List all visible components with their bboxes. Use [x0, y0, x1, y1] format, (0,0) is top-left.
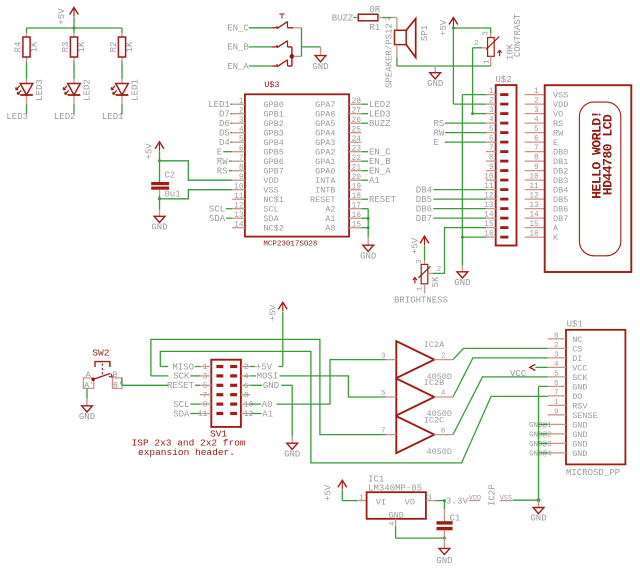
svg-text:GND: GND — [427, 79, 443, 89]
svg-text:GPB3: GPB3 — [263, 129, 283, 139]
header U$2 — [496, 75, 517, 246]
wire IC1 GND to C1 bottom — [396, 527, 445, 539]
svg-text:LED1: LED1 — [208, 100, 230, 110]
power pin VDD IC2P — [469, 495, 481, 503]
svg-text:C2: C2 — [164, 171, 175, 181]
wire MOSI to IC2B input — [250, 376, 386, 397]
svg-text:5: 5 — [554, 370, 559, 378]
svg-text:9: 9 — [489, 164, 494, 172]
svg-text:SDA: SDA — [173, 409, 190, 419]
svg-text:A': A' — [84, 380, 94, 390]
svg-text:2: 2 — [239, 107, 244, 115]
svg-text:GND: GND — [454, 278, 470, 288]
svg-text:GPA1: GPA1 — [315, 157, 335, 167]
svg-text:3: 3 — [554, 351, 559, 359]
pin stubs U$3 left — [232, 104, 245, 228]
svg-text:EN_C: EN_C — [369, 148, 391, 158]
svg-text:IC2B: IC2B — [424, 378, 444, 388]
junction VSS ground — [158, 197, 161, 200]
resistor R1 0R — [358, 5, 380, 33]
wire contrast pin 2 to U$2 pin 3 — [473, 48, 487, 114]
svg-text:RW: RW — [553, 129, 564, 139]
svg-text:2: 2 — [437, 266, 442, 274]
svg-text:16: 16 — [352, 212, 362, 220]
svg-text:22: 22 — [352, 155, 362, 163]
wire SCK loop to IC2C input — [151, 339, 386, 434]
svg-text:VCC: VCC — [572, 363, 587, 373]
svg-text:INTA: INTA — [315, 176, 336, 186]
wire A1 stub — [250, 413, 261, 415]
header SV1 — [210, 360, 241, 440]
pin stub IC1 GND — [395, 519, 397, 527]
svg-text:LED2: LED2 — [369, 100, 391, 110]
wire R1 to speaker pin 2 — [378, 18, 397, 31]
svg-text:K: K — [553, 233, 559, 243]
svg-text:8: 8 — [534, 155, 539, 163]
svg-text:LED2: LED2 — [82, 79, 92, 101]
ground SW2 — [79, 399, 95, 422]
wire +5V to C2 — [159, 161, 161, 182]
pin numbers SV1 — [198, 364, 254, 419]
wire EN_A to junction — [288, 56, 292, 66]
svg-text:MICROSD_PP: MICROSD_PP — [566, 468, 620, 478]
svg-text:HD44780 LCD: HD44780 LCD — [601, 114, 616, 195]
pin pads SV1 — [216, 365, 237, 415]
svg-text:+5V: +5V — [324, 484, 334, 501]
svg-text:CS: CS — [572, 344, 582, 354]
svg-text:+5V: +5V — [411, 237, 421, 254]
svg-text:E: E — [553, 138, 558, 148]
svg-text:8: 8 — [244, 392, 249, 400]
svg-text:RSV: RSV — [572, 401, 588, 411]
pin stubs IC2B — [381, 390, 453, 398]
svg-text:DB7: DB7 — [553, 214, 568, 224]
svg-text:12: 12 — [234, 202, 244, 210]
wire SDA stub — [190, 413, 200, 415]
svg-text:IC2A: IC2A — [424, 340, 445, 350]
junction C1 ground — [443, 537, 446, 540]
wire EN_C to common — [288, 27, 302, 29]
voltage regulator IC1 LM340MP-05 — [367, 475, 426, 521]
svg-text:EN_A: EN_A — [227, 62, 249, 72]
svg-text:SPEAKER/PS12: SPEAKER/PS12 — [384, 23, 394, 88]
junction LED rail — [73, 27, 76, 30]
svg-text:E: E — [434, 138, 439, 148]
svg-text:IC2P: IC2P — [487, 484, 497, 506]
svg-text:GPA0: GPA0 — [315, 167, 335, 177]
power +5V symbol (U$3 supply) — [145, 142, 164, 160]
svg-text:11: 11 — [529, 183, 539, 191]
svg-text:16: 16 — [529, 231, 539, 239]
pin numbers U$3 left — [234, 98, 244, 230]
svg-text:DO: DO — [572, 392, 582, 402]
svg-text:13: 13 — [529, 202, 539, 210]
wire +5V SV1 — [250, 312, 282, 367]
junction contrast VO — [471, 112, 474, 115]
svg-text:1: 1 — [203, 364, 208, 372]
svg-text:28: 28 — [352, 98, 362, 106]
svg-text:DB2: DB2 — [553, 167, 568, 177]
junction C1 top — [443, 499, 446, 502]
svg-text:11: 11 — [198, 411, 208, 419]
svg-text:INTB: INTB — [315, 186, 335, 196]
svg-text:3: 3 — [416, 259, 424, 264]
svg-text:NC: NC — [572, 335, 582, 345]
svg-text:SDA: SDA — [263, 214, 279, 224]
svg-text:EN_A: EN_A — [369, 167, 391, 177]
wire A0 to IC2A input — [250, 360, 386, 405]
svg-text:D4: D4 — [219, 138, 230, 148]
pin stub brightness pin 1 — [424, 284, 426, 294]
svg-text:8: 8 — [554, 332, 559, 340]
svg-text:D5: D5 — [219, 129, 230, 139]
svg-text:6: 6 — [441, 427, 446, 435]
svg-text:CONTRAST: CONTRAST — [513, 13, 523, 57]
svg-text:VO: VO — [405, 498, 415, 508]
svg-text:6: 6 — [554, 380, 559, 388]
svg-text:10: 10 — [484, 174, 494, 182]
svg-text:A: A — [86, 370, 92, 380]
svg-text:10: 10 — [244, 402, 254, 410]
svg-text:1K: 1K — [30, 41, 40, 52]
LCD pin names — [553, 91, 568, 244]
svg-text:EN_B: EN_B — [227, 43, 249, 53]
svg-text:U$1: U$1 — [567, 320, 583, 330]
net labels U$3 left pins — [208, 100, 232, 224]
buffer IC2C 4050 — [396, 416, 452, 457]
svg-text:3: 3 — [381, 353, 386, 361]
wire U$3 VSS to ground — [160, 190, 233, 199]
wire +5V rail to U$2 pin 2 — [453, 27, 486, 104]
wire EN_A — [249, 65, 272, 67]
svg-text:GPA3: GPA3 — [315, 138, 335, 148]
wire U$2 pin16 K — [462, 236, 486, 238]
switch contact EN_B — [272, 41, 287, 48]
svg-text:1: 1 — [239, 98, 244, 106]
svg-text:26: 26 — [352, 117, 362, 125]
svg-text:27: 27 — [352, 107, 362, 115]
svg-text:2: 2 — [474, 40, 479, 48]
pin stub IC1 VO — [426, 500, 435, 502]
svg-text:3: 3 — [489, 107, 494, 115]
svg-text:5: 5 — [381, 390, 386, 398]
svg-text:7: 7 — [554, 389, 559, 397]
svg-text:17: 17 — [352, 202, 362, 210]
svg-text:2: 2 — [489, 98, 494, 106]
svg-text:3.3V: 3.3V — [446, 495, 469, 506]
svg-text:SENSE: SENSE — [572, 411, 598, 421]
junction A0 pin15 — [367, 226, 370, 229]
svg-text:RS: RS — [217, 167, 228, 177]
svg-text:GND: GND — [360, 251, 376, 261]
buffer IC2B 4050 — [396, 378, 452, 419]
svg-text:1K: 1K — [125, 41, 135, 52]
pin names U$3 left — [263, 100, 283, 234]
wire GND SV1 — [250, 385, 292, 436]
svg-text:11: 11 — [234, 193, 244, 201]
junction EN common — [290, 54, 295, 59]
wire IC2A out to CS — [453, 348, 548, 359]
svg-text:LED2: LED2 — [54, 112, 76, 122]
svg-text:GND: GND — [312, 62, 328, 72]
svg-text:DB7: DB7 — [416, 214, 432, 224]
svg-text:GND: GND — [572, 420, 587, 430]
svg-text:NC$2: NC$2 — [263, 224, 283, 234]
svg-text:LED1: LED1 — [102, 112, 124, 122]
svg-text:GPB5: GPB5 — [263, 148, 283, 158]
svg-text:DB4: DB4 — [416, 185, 432, 195]
svg-text:GPA6: GPA6 — [315, 110, 335, 120]
svg-text:5K: 5K — [431, 276, 441, 287]
svg-text:DB3: DB3 — [553, 176, 568, 186]
svg-text:GND: GND — [436, 556, 452, 566]
resistor R2 1K — [109, 37, 135, 57]
power +5V symbol (IC1) — [324, 480, 347, 501]
svg-text:RESET: RESET — [310, 195, 336, 205]
svg-text:4: 4 — [441, 390, 446, 398]
svg-text:2: 2 — [554, 342, 559, 350]
wire IC2C out to SCK — [453, 377, 548, 435]
net labels SV1 right — [256, 362, 279, 419]
wire EN common — [294, 28, 321, 57]
power +5V symbol (SV1) — [269, 302, 288, 321]
junction K pin16 — [461, 236, 464, 239]
svg-text:GPB1: GPB1 — [263, 110, 283, 120]
wire +5V to IC1 VI — [342, 490, 366, 501]
svg-text:10: 10 — [529, 174, 539, 182]
svg-text:GND@1: GND@1 — [529, 422, 552, 430]
svg-text:U$2: U$2 — [496, 75, 512, 85]
pin stub contrast pin1 — [490, 56, 492, 64]
svg-text:20: 20 — [352, 174, 362, 182]
svg-text:+5V: +5V — [57, 8, 67, 25]
svg-text:8: 8 — [239, 164, 244, 172]
power +5V symbol (brightness) — [411, 236, 429, 254]
svg-text:EN_C: EN_C — [227, 24, 249, 34]
ground EN switches — [312, 47, 328, 72]
svg-text:A1: A1 — [369, 176, 380, 186]
LCD pin stubs — [525, 95, 545, 238]
svg-text:RS: RS — [434, 119, 445, 129]
svg-text:9: 9 — [554, 408, 559, 416]
wire LED1 column — [121, 28, 123, 115]
wire EN_B — [249, 46, 272, 48]
svg-text:A1: A1 — [325, 214, 335, 224]
svg-text:GPB0: GPB0 — [263, 100, 283, 110]
svg-text:VDD: VDD — [263, 176, 278, 186]
svg-text:15: 15 — [352, 221, 362, 229]
svg-text:VI: VI — [376, 498, 386, 508]
wire MISO loop to DO — [160, 351, 547, 463]
svg-text:5: 5 — [489, 126, 494, 134]
pin names U$1 — [572, 335, 598, 459]
svg-text:D6: D6 — [219, 119, 230, 129]
svg-text:RESET: RESET — [167, 381, 195, 391]
svg-text:13: 13 — [234, 212, 244, 220]
wire U$1 GND net — [539, 386, 548, 500]
svg-text:LED3: LED3 — [369, 110, 391, 120]
pin numbers U$1 — [529, 332, 559, 458]
svg-text:DB4: DB4 — [553, 186, 568, 196]
svg-text:BRIGHTNESS: BRIGHTNESS — [394, 296, 448, 306]
wire +5V to contrast pin 3 — [453, 28, 490, 38]
svg-text:23: 23 — [352, 145, 362, 153]
svg-text:7: 7 — [203, 392, 208, 400]
svg-text:VCC: VCC — [510, 369, 527, 379]
svg-text:LED1: LED1 — [130, 79, 140, 101]
capacitor C2 0u1 — [151, 171, 180, 200]
svg-text:+5V: +5V — [439, 19, 449, 36]
svg-text:21: 21 — [352, 164, 362, 172]
svg-text:BUZZ: BUZZ — [369, 119, 391, 129]
svg-text:DB6: DB6 — [416, 204, 432, 214]
svg-text:VDD: VDD — [469, 495, 481, 503]
ground C2 — [151, 210, 167, 233]
svg-text:RS: RS — [553, 119, 563, 129]
svg-text:A: A — [553, 224, 559, 234]
svg-text:GPA4: GPA4 — [315, 129, 335, 139]
svg-text:GPA2: GPA2 — [315, 148, 335, 158]
svg-text:6: 6 — [489, 136, 494, 144]
svg-text:3: 3 — [239, 117, 244, 125]
wire SCL stub — [190, 403, 200, 405]
svg-text:5: 5 — [239, 136, 244, 144]
svg-text:7: 7 — [534, 145, 539, 153]
wire VSS to ground rail — [513, 499, 539, 501]
net labels SV1 left — [167, 362, 195, 419]
switch actuator mark T — [279, 14, 284, 19]
svg-text:DI: DI — [572, 354, 582, 364]
svg-text:SW2: SW2 — [92, 347, 109, 358]
pin stubs IC2C — [381, 427, 453, 435]
wire LED2 column — [73, 28, 75, 115]
svg-text:GND@4: GND@4 — [529, 451, 552, 459]
svg-text:SCL: SCL — [263, 205, 278, 215]
svg-text:4: 4 — [239, 126, 244, 134]
pin stubs SV1 — [200, 367, 250, 414]
svg-text:B: B — [112, 370, 117, 380]
LED LED3 — [16, 79, 45, 101]
svg-text:GND: GND — [79, 412, 95, 422]
svg-text:NC$1: NC$1 — [263, 195, 283, 205]
svg-text:A0: A0 — [325, 224, 335, 234]
IC U3 MCP23017SO28 — [245, 80, 349, 249]
wire EN_C — [249, 27, 272, 29]
svg-text:6: 6 — [239, 145, 244, 153]
wire C1 top — [443, 501, 445, 521]
svg-text:RW: RW — [217, 157, 228, 167]
svg-text:VSS: VSS — [500, 495, 512, 503]
pin stubs U$3 right — [349, 104, 361, 228]
svg-text:DB5: DB5 — [416, 195, 432, 205]
ground C1 — [436, 548, 452, 566]
pin pads U$2 — [500, 93, 508, 238]
svg-text:SCK: SCK — [572, 373, 588, 383]
speaker SP1 — [384, 19, 430, 88]
svg-text:DB5: DB5 — [553, 195, 568, 205]
svg-text:LED3: LED3 — [6, 112, 28, 122]
svg-text:R4: R4 — [14, 42, 24, 53]
switch contact EN_C — [272, 22, 287, 29]
svg-text:1: 1 — [359, 494, 364, 502]
wire U$2 pin1 VSS to ground — [462, 95, 486, 265]
svg-text:SDA: SDA — [209, 214, 226, 224]
svg-text:1: 1 — [489, 88, 494, 96]
ground SV1 — [284, 436, 300, 459]
svg-text:6: 6 — [244, 383, 249, 391]
pin names U$3 right — [310, 100, 336, 234]
svg-text:R3: R3 — [61, 42, 71, 53]
svg-text:9: 9 — [534, 164, 539, 172]
IC U$1 MICROSD_PP — [566, 320, 625, 478]
svg-text:GND: GND — [572, 382, 587, 392]
svg-text:2: 2 — [534, 98, 539, 106]
svg-text:RESET: RESET — [369, 195, 397, 205]
switch contact EN_A — [272, 60, 287, 67]
junction +5V contrast branch — [452, 27, 455, 30]
svg-text:D7: D7 — [219, 110, 230, 120]
wire U$2 pin15 A to brightness — [433, 228, 486, 274]
svg-text:1: 1 — [554, 399, 559, 407]
net labels U$3 right pins — [361, 100, 396, 205]
svg-text:1K: 1K — [77, 41, 87, 52]
pin numbers U$2 — [484, 88, 494, 239]
wire C2 to ground — [159, 190, 161, 210]
svg-text:VO: VO — [553, 110, 563, 120]
svg-text:EN_B: EN_B — [369, 157, 391, 167]
wire C1 bottom — [443, 530, 445, 538]
svg-text:25: 25 — [352, 126, 362, 134]
wire +5V LED rail — [27, 27, 123, 29]
svg-text:5: 5 — [534, 126, 539, 134]
svg-text:2: 2 — [441, 352, 446, 360]
svg-text:IC2C: IC2C — [424, 416, 444, 426]
svg-text:VDD: VDD — [553, 100, 568, 110]
svg-text:5: 5 — [203, 383, 208, 391]
ground U$2 — [454, 265, 470, 288]
switch SW2 — [83, 347, 123, 390]
wire SW2 to RESET — [122, 378, 200, 385]
LCD pin numbers — [529, 88, 539, 239]
svg-text:GND: GND — [572, 430, 587, 440]
svg-text:GPB4: GPB4 — [263, 138, 283, 148]
svg-text:12: 12 — [529, 193, 539, 201]
svg-text:E: E — [217, 148, 222, 158]
svg-text:14: 14 — [529, 212, 539, 220]
wire 3.3V output — [435, 500, 446, 502]
svg-text:1: 1 — [417, 286, 425, 291]
wire SW2 to ground — [86, 388, 88, 398]
svg-text:DB0: DB0 — [553, 148, 568, 158]
svg-text:GPB7: GPB7 — [263, 167, 283, 177]
junction A1 pin16 — [367, 217, 370, 220]
svg-text:LED3: LED3 — [35, 79, 45, 101]
svg-text:U$3: U$3 — [264, 80, 279, 90]
svg-text:3: 3 — [483, 31, 491, 36]
svg-text:7: 7 — [239, 155, 244, 163]
capacitor C1 — [437, 514, 461, 531]
pin numbers U$3 right — [352, 98, 362, 230]
ground U$1 rail — [530, 500, 546, 524]
wire +5V to brightness pin 3 — [424, 246, 426, 265]
svg-text:SCL: SCL — [209, 205, 225, 215]
net labels RS RW E at U$2 — [434, 119, 487, 148]
svg-text:18: 18 — [352, 193, 362, 201]
wire U$3 A2 A1 A0 to ground — [361, 209, 368, 237]
potentiometer BRIGHTNESS 5K — [394, 259, 448, 306]
ground U$3 address pins — [360, 237, 376, 261]
svg-text:DB1: DB1 — [553, 157, 568, 167]
